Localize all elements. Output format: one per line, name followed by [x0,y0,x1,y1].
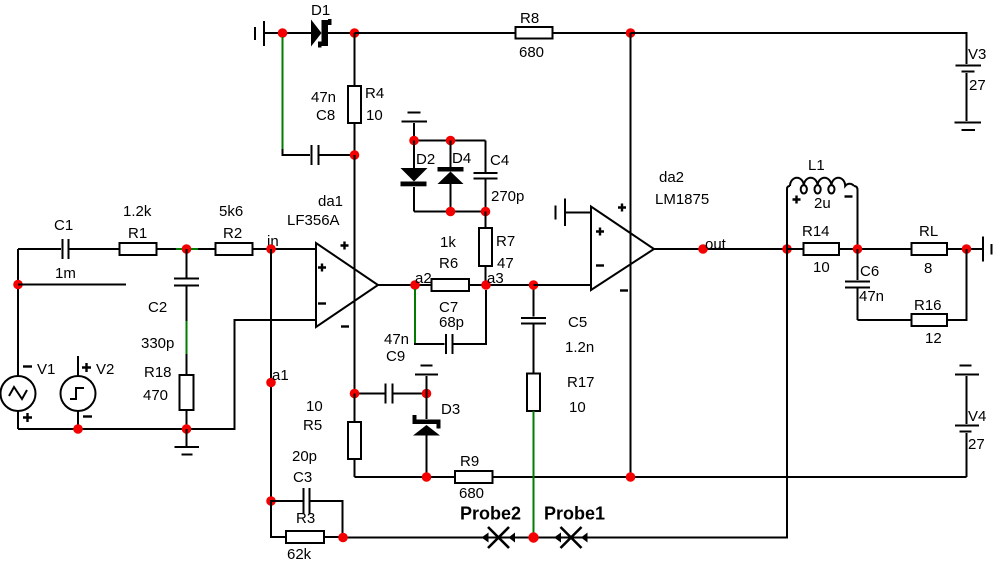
svg-text:V1: V1 [37,361,55,378]
svg-text:L1: L1 [808,157,825,174]
da1 -input mark [318,302,326,304]
node R3/probe-line [338,533,348,543]
node probe junction [528,532,538,542]
node top rail / da2 supply [626,28,636,38]
node C8/R4 [350,150,360,160]
svg-text:20p: 20p [292,448,317,465]
ground (inverted) above V4 [955,366,979,425]
svg-text:C2: C2 [148,299,167,316]
da2 -input mark [596,264,604,266]
node R9/rail [626,472,636,482]
node RL right [962,244,972,254]
node out [698,244,708,254]
port P1 (top-left supply terminal) [255,21,282,46]
svg-text:LF356A: LF356A [287,212,340,229]
resistor R9 [455,471,631,483]
diode D4 (zener, cathode up) [438,141,464,212]
svg-text:47n: 47n [859,288,884,305]
svg-text:a1: a1 [272,367,289,384]
wire bottom-right rail [631,476,967,478]
svg-text:10: 10 [366,107,383,124]
svg-text:680: 680 [459,485,484,502]
svg-text:C1: C1 [54,217,73,234]
node in [266,244,276,254]
svg-text:da2: da2 [659,169,684,186]
svg-text:R5: R5 [303,417,322,434]
svg-text:10: 10 [813,259,830,276]
resistor R5 [348,394,361,478]
wire (green) at R1/R2 junction [176,248,198,250]
svg-text:R7: R7 [496,233,515,250]
svg-text:out: out [705,236,727,253]
probe Probe2 [482,527,516,548]
svg-text:2u: 2u [814,195,831,212]
resistor R16 [858,249,967,326]
wire a1 column [270,249,272,501]
node V2 bottom [73,424,83,434]
wire D2/D4/C4 bottom rail [414,211,486,213]
svg-text:1k: 1k [440,234,456,251]
node R1/R2/C2 [182,244,192,254]
battery V4 [955,426,979,478]
svg-text:Probe2: Probe2 [460,504,521,524]
wire feedback column from out node [343,249,787,538]
node C3/R3 left [266,496,276,506]
svg-text:12: 12 [925,330,942,347]
node a3 [481,280,491,290]
svg-text:D2: D2 [416,151,435,168]
label - under V2 [83,415,92,417]
source V1 [1,376,36,429]
ground (inverted) above D3 [415,366,438,394]
svg-text:R17: R17 [567,374,595,391]
svg-text:C3: C3 [293,469,312,486]
svg-text:R18: R18 [144,364,172,381]
wire D2/D4/C4 top rail [414,140,486,142]
ground (inverted) above D2 [402,113,428,141]
battery V3 [956,66,982,122]
node R18 bottom [182,424,192,434]
svg-text:C4: C4 [490,152,509,169]
node D1 cathode [350,28,360,38]
resistor R1 [120,243,216,255]
svg-text:Probe1: Probe1 [544,504,605,524]
wire (green) a2 down to C7 [414,289,416,344]
wire da2 supply column [630,33,632,477]
capacitor C4 [474,141,498,212]
da2 -supply mark [620,289,628,291]
svg-text:R9: R9 [460,453,479,470]
capacitor C9 [355,384,427,404]
svg-text:R8: R8 [520,10,539,27]
node output/L1 left [782,244,792,254]
ground for V3 [955,123,982,131]
node D3 bottom [422,472,432,482]
capacitor C5 [521,285,546,374]
ground below R18 [175,429,200,455]
wire R9 row left [355,476,456,478]
node a1 [266,378,276,388]
da1 +input mark [318,264,326,272]
svg-text:1m: 1m [55,265,76,282]
resistor R2 [216,243,317,255]
svg-text:R6: R6 [439,255,458,272]
resistor R6 [432,279,534,291]
svg-text:C5: C5 [568,314,587,331]
node C5 top [529,280,539,290]
node D2 top [409,136,419,146]
svg-text:R4: R4 [365,85,384,102]
op-amp U1 da1 [316,243,378,327]
resistor RL [912,243,983,255]
node D4 top [446,136,456,146]
node C9 left [350,389,360,399]
op-amp U2 da2 [591,207,654,291]
svg-text:D4: D4 [452,150,471,167]
diode D1 (zener) [311,19,354,48]
svg-text:RL: RL [919,223,938,240]
svg-text:R2: R2 [223,225,242,242]
node stub [13,280,23,290]
svg-text:V4: V4 [968,408,986,425]
svg-text:R1: R1 [128,225,147,242]
wire stub [18,284,126,286]
source V2 [61,356,96,429]
svg-text:C9: C9 [386,348,405,365]
svg-text:R14: R14 [802,223,830,240]
L1 - mark [845,195,853,197]
wire elbow to C8 [283,149,311,155]
svg-text:D1: D1 [311,2,330,19]
wire top rail left [282,32,311,34]
node D4 bottom [446,207,456,217]
resistor R18 [180,354,194,429]
svg-text:68p: 68p [439,314,464,331]
svg-text:1.2k: 1.2k [123,203,152,220]
capacitor C2 [174,249,199,322]
node C9 right / D3 top [422,389,432,399]
resistor R3 [271,500,343,543]
svg-text:1.2n: 1.2n [565,339,594,356]
svg-text:47n: 47n [384,331,409,348]
da1 -supply mark [341,325,349,327]
svg-text:10: 10 [306,398,323,415]
wire top rail to V3 [631,33,967,64]
svg-text:470: 470 [143,387,168,404]
resistor R4 [348,33,361,155]
wire da2 output [654,248,787,250]
wire left input column [17,249,19,376]
node at D1 anode [278,28,288,38]
svg-text:680: 680 [519,44,544,61]
svg-text:330p: 330p [141,335,174,352]
wire da1 supply column [354,155,356,394]
resistor R17 [527,374,540,412]
svg-text:5k6: 5k6 [219,203,243,220]
node C4 bottom [481,207,491,217]
diode D2 (zener, cathode down) [401,141,428,212]
wire top rail to R8 [355,32,516,34]
port P3 (output terminal) [983,237,992,262]
da2 +input mark [596,228,604,236]
label + under V1 [23,413,32,422]
wire (green) from node down to C8 [282,37,284,150]
wire da2 -input [534,284,592,286]
svg-text:10: 10 [569,399,586,416]
svg-text:R16: R16 [914,297,942,314]
svg-text:a3: a3 [487,270,504,287]
capacitor C8 [312,145,355,165]
wire da1 output [378,284,432,286]
label +V2 [82,361,114,378]
da2 +supply mark [618,204,626,212]
svg-text:a2: a2 [415,270,432,287]
svg-text:da1: da1 [318,193,343,210]
svg-text:62k: 62k [287,546,312,563]
capacitor C6 [845,249,870,320]
svg-text:V3: V3 [968,46,986,63]
svg-text:D3: D3 [441,401,460,418]
L1 + mark [793,196,801,204]
diode D3 (zener, cathode up) [413,394,441,478]
svg-text:27: 27 [968,436,985,453]
label -V1 [23,361,55,378]
svg-text:C6: C6 [860,263,879,280]
svg-text:8: 8 [924,260,932,277]
resistor R14 [787,243,912,255]
capacitor C7 [415,290,486,354]
svg-text:R3: R3 [296,510,315,527]
capacitor C1 [18,239,120,259]
svg-text:LM1875: LM1875 [655,191,709,208]
svg-text:270p: 270p [491,188,524,205]
capacitor C3 [271,488,343,538]
da1 +supply mark [341,242,349,250]
svg-text:C8: C8 [316,107,335,124]
wire (green) C2 to R18 [186,321,188,355]
wire bottom-left rail [18,320,316,429]
svg-text:V2: V2 [96,361,114,378]
inductor L1 [787,178,858,249]
probe Probe1 [554,527,588,548]
node R14/C6 [853,244,863,254]
node a2 [410,280,420,290]
wire (green) R17 to probe node [533,411,535,538]
port P2 (da2 +input terminal) [556,199,592,227]
svg-text:47n: 47n [311,89,336,106]
resistor R8 [516,27,631,39]
svg-text:27: 27 [969,77,986,94]
resistor R7 [479,212,492,286]
